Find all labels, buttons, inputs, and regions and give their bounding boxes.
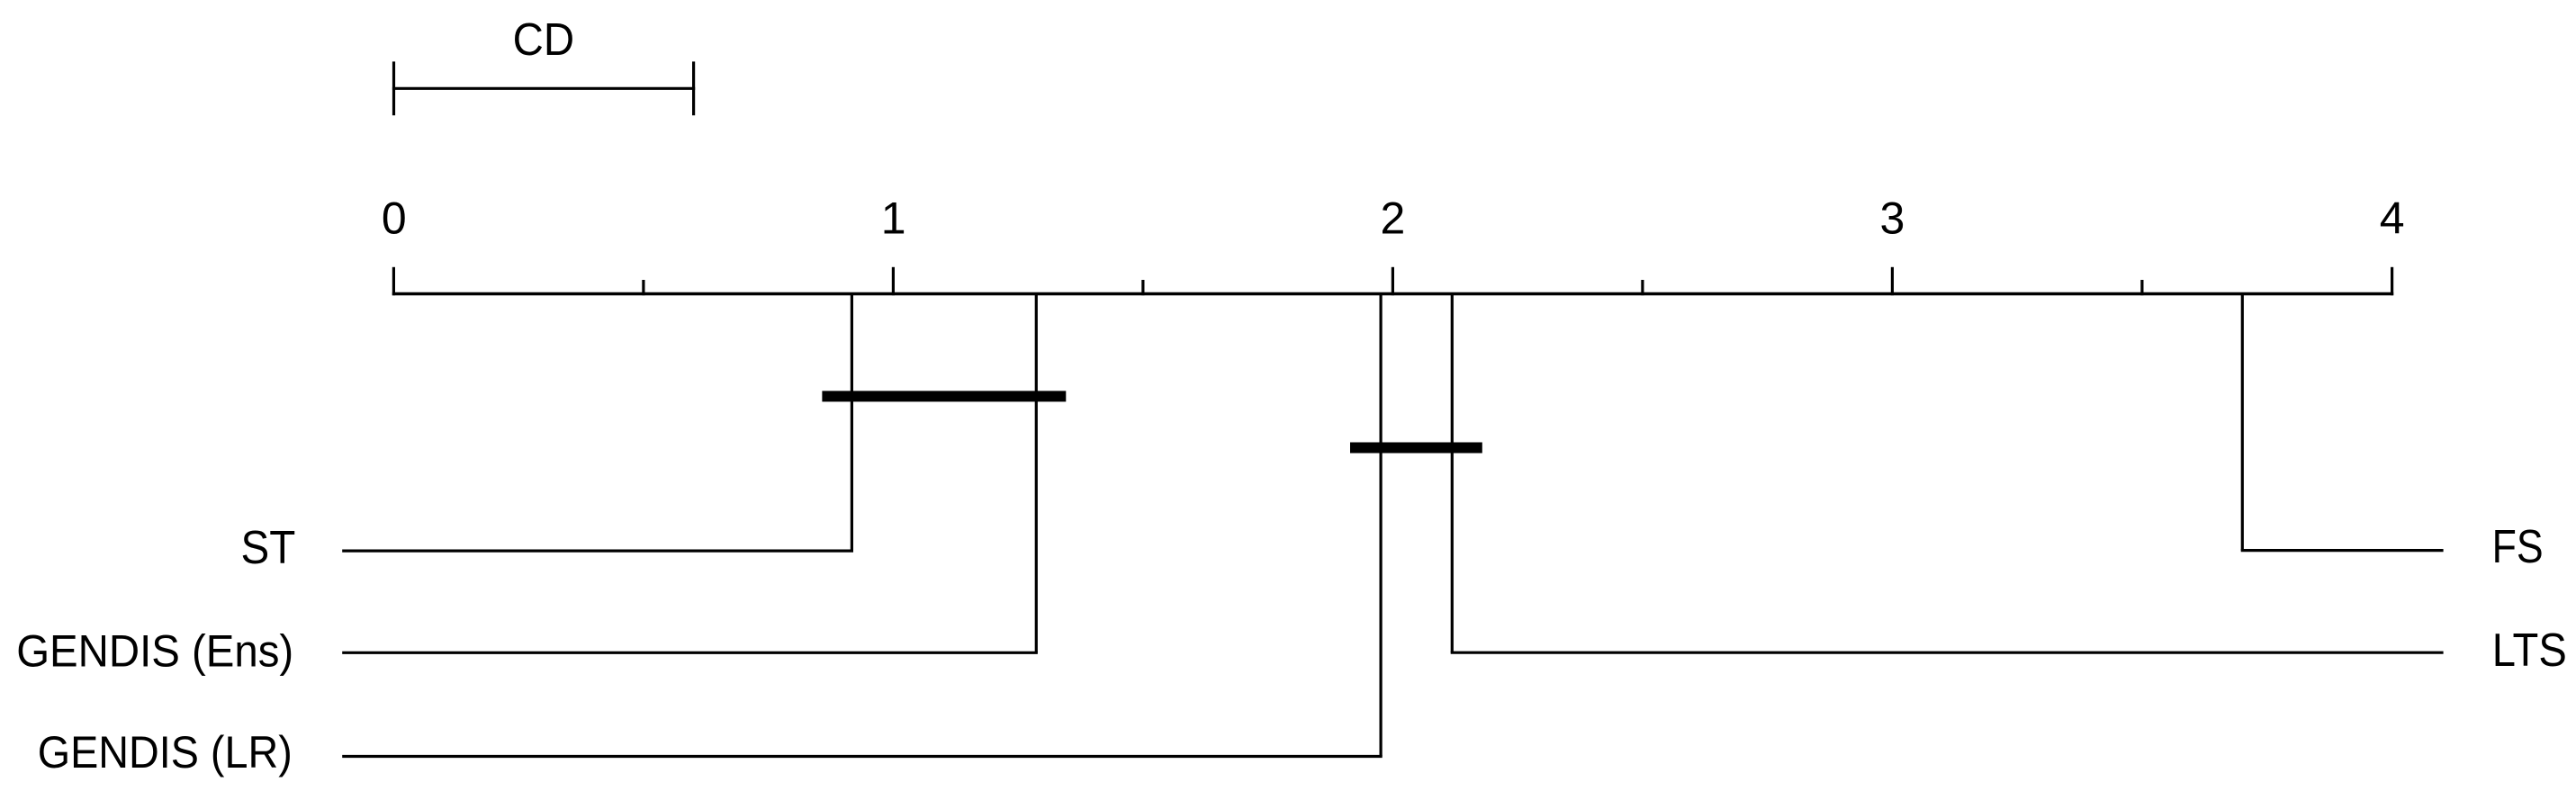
axis line	[392, 292, 2393, 296]
GENDIS (Ens) vertical	[1035, 294, 1038, 653]
FS horizontal	[2241, 549, 2444, 552]
svg-text:ST: ST	[241, 522, 296, 574]
minor tick 3.5	[2140, 280, 2143, 295]
FS vertical	[2241, 294, 2244, 551]
minor tick 1.5	[1141, 280, 1144, 295]
major tick 0	[392, 267, 395, 295]
svg-text:1: 1	[881, 193, 906, 244]
svg-text:LTS: LTS	[2492, 625, 2567, 677]
major tick 3	[1891, 267, 1894, 295]
clique bar 1 (ST + GENDIS (Ens))	[822, 391, 1066, 401]
ST vertical	[851, 294, 853, 552]
CD left end tick	[392, 61, 395, 115]
svg-text:FS: FS	[2492, 521, 2544, 573]
major tick 2	[1392, 267, 1394, 295]
GENDIS (Ens) horizontal	[342, 652, 1038, 654]
LTS vertical	[1451, 294, 1454, 653]
svg-text:CD: CD	[513, 13, 575, 65]
GENDIS (LR) horizontal	[342, 755, 1383, 758]
svg-text:GENDIS (Ens): GENDIS (Ens)	[16, 625, 293, 676]
major tick 1	[892, 267, 895, 295]
minor tick 2.5	[1641, 280, 1644, 295]
svg-text:3: 3	[1879, 193, 1905, 244]
clique bar 2 (GENDIS (LR) + LTS)	[1350, 443, 1482, 454]
GENDIS (LR) vertical	[1379, 294, 1382, 757]
CD right end tick	[692, 61, 695, 115]
ST horizontal	[342, 549, 853, 552]
svg-text:GENDIS (LR): GENDIS (LR)	[38, 727, 293, 778]
LTS horizontal	[1451, 652, 2444, 654]
minor tick 0.5	[642, 280, 644, 295]
svg-text:2: 2	[1380, 193, 1405, 244]
major tick 4	[2391, 267, 2393, 295]
svg-text:0: 0	[382, 193, 407, 244]
svg-text:4: 4	[2380, 193, 2405, 244]
CD interval line	[392, 87, 695, 90]
